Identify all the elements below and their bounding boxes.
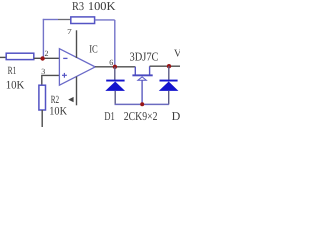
wire op-amp output [95,66,135,68]
pin 7 wire [76,30,78,58]
wire node 2 to op-amp inverting input [42,57,60,59]
wire feedback left vertical [42,19,44,58]
wire D1 bottom [114,91,116,105]
svg-text:7: 7 [67,27,72,36]
op-amp U1 triangle [59,49,95,85]
resistor R3 [71,17,95,24]
wire R3 right [95,19,115,21]
wire to R3 left [58,19,71,21]
minus input symbol [63,57,67,59]
bottom rail wire [115,103,169,105]
svg-text:D: D [172,109,180,123]
svg-text:10K: 10K [49,106,67,118]
svg-text:R3: R3 [72,0,84,13]
svg-text:100K: 100K [88,0,116,13]
resistor R1 [6,53,34,59]
svg-text:10K: 10K [6,79,25,91]
diode D1 triangle [105,82,125,91]
JFET Q1 left leg [134,67,136,75]
svg-text:V: V [174,49,180,60]
wire R1 to node 2 [34,57,43,59]
svg-text:2: 2 [45,49,49,58]
output node dot [167,64,171,68]
svg-text:6: 6 [109,58,113,67]
plus input symbol [62,74,67,76]
JFET right leg [149,66,151,75]
svg-text:3DJ7C: 3DJ7C [130,50,159,64]
node 2 dot [40,56,44,60]
pin 4 arrow mark [68,97,73,102]
JFET gate wire down [141,80,143,104]
node 6 dot [113,65,117,69]
JFET gate arrow [138,77,146,80]
JFET channel bar [132,74,152,76]
diode D2 triangle [159,82,179,91]
wire feedback top left [43,19,58,21]
svg-text:R1: R1 [8,65,17,77]
svg-text:R2: R2 [51,94,59,106]
wire R1 input [0,56,6,58]
wire JFET right to output node [150,65,180,67]
pin 4 wire [76,77,78,106]
wire R2 bottom [41,110,43,127]
diode D1 cathode bar [106,80,124,82]
svg-text:IC: IC [89,43,98,55]
wire node 6 to D1 [114,67,116,80]
svg-text:D1: D1 [104,109,114,123]
diode D2 cathode bar [160,80,178,82]
wire node to D2 [168,66,170,80]
gate rail junction dot [140,102,144,106]
svg-text:2CK9×2: 2CK9×2 [124,109,158,123]
wire D2 bottom [168,91,170,105]
wire feedback right vertical [114,20,116,67]
resistor R2 [39,85,46,110]
wire non-inverting input [42,75,60,85]
